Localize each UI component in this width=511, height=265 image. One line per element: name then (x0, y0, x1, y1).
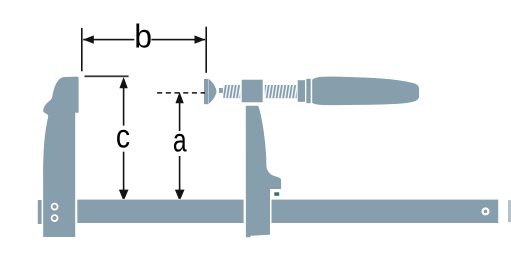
dimension a: shaft lower (179, 156, 181, 190)
dimension b: line left part (83, 39, 134, 41)
fixed arm (left jaw) (43, 77, 79, 237)
svg-text:b: b (134, 18, 152, 55)
rail left section (77, 200, 243, 223)
dark clip detail (274, 192, 279, 196)
thread band 1 (223, 85, 240, 98)
dashed screw axis line (157, 92, 205, 94)
thread band 2 (265, 85, 297, 98)
dimension c: shaft lower (123, 152, 125, 191)
hole rings on fixed arm (52, 204, 58, 210)
dimension c: shaft upper (123, 88, 125, 126)
collar ring 1 (298, 80, 305, 102)
screw tip square (219, 88, 223, 93)
svg-text:a: a (173, 123, 187, 159)
sliding arm (246, 106, 281, 238)
pad plate (204, 79, 209, 104)
svg-text:c: c (116, 117, 130, 155)
dimension b: right arrowhead (195, 35, 206, 43)
rail end plate (38, 200, 42, 224)
pad dome (209, 79, 217, 103)
dimension c: top arrowhead (119, 77, 127, 88)
dimension a: top arrowhead (175, 92, 183, 103)
handle (312, 77, 419, 106)
clamp body group, fill slate blue (38, 77, 511, 238)
dimension b: left tick (81, 28, 83, 71)
dimension a: bottom arrowhead (175, 190, 185, 199)
rail sliver at image edge (508, 200, 511, 222)
dimension b: right tick (205, 27, 207, 73)
dimension c: bottom arrowhead (119, 190, 129, 199)
hole ring on rail right (483, 209, 489, 215)
dimension b: line right part (151, 39, 205, 41)
dimension b: left arrowhead (83, 35, 94, 43)
rail right section (272, 200, 499, 223)
jaw top reference line (85, 75, 129, 77)
dimension a: shaft upper (179, 103, 181, 131)
screw nut block (242, 80, 263, 103)
collar ring 2 (306, 79, 310, 103)
